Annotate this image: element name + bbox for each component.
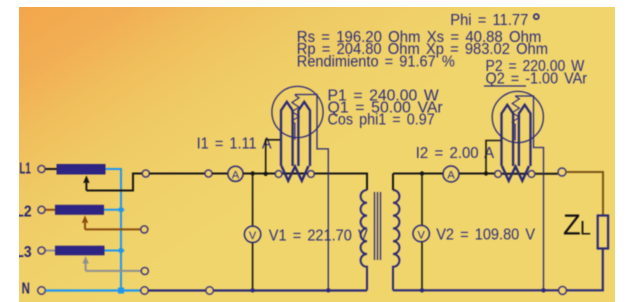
potentiometer L3 terminal	[38, 247, 45, 254]
terminal: secondary output bottom	[559, 286, 567, 294]
potentiometer L2 wire from terminal	[45, 209, 55, 211]
cyan junction L3	[117, 247, 124, 254]
terminal: L2 branch	[141, 226, 148, 233]
wire: L3 wiper to branch terminal	[86, 270, 142, 272]
cyan stub L2	[104, 209, 121, 211]
junction: W2 on bottom rail	[541, 288, 545, 292]
junction: W1 voltage tap	[264, 172, 268, 176]
junction: V2 on bottom rail	[420, 288, 424, 292]
potentiometer L2 terminal	[38, 206, 45, 213]
terminal: N input	[38, 287, 46, 295]
svg-text:V: V	[418, 229, 426, 241]
wire: top rail segment B	[212, 173, 228, 175]
svg-text:Phi = 11.77: Phi = 11.77	[450, 12, 528, 29]
cyan bus vertical	[120, 168, 122, 291]
white margin left	[0, 0, 19, 302]
potentiometer L1 wiper arrow	[85, 183, 87, 191]
cyan junction N rail	[118, 288, 124, 294]
wattmeter W2 voltage coil resistor	[512, 97, 519, 125]
wattmeter W2 case circle	[492, 91, 543, 142]
wattmeter W2 voltage tap wiring	[516, 96, 544, 290]
wattmeter W1 voltage coil resistor	[292, 96, 299, 124]
junction: V1 on bottom rail	[250, 288, 254, 292]
cyan stub L1	[106, 168, 122, 170]
potentiometer L2 wiper arrow	[84, 223, 86, 229]
potentiometer L3 wiper arrow	[85, 264, 87, 271]
svg-text:I2 = 2.00 A: I2 = 2.00 A	[416, 145, 495, 162]
junction: V2 tap	[420, 171, 424, 175]
svg-text:Rendimiento = 91.67 %: Rendimiento = 91.67 %	[297, 54, 455, 71]
terminal: top rail 2	[205, 170, 212, 177]
wattmeter W1	[266, 86, 329, 290]
potentiometer L2 body	[55, 205, 104, 215]
potentiometer L1 wire from terminal	[45, 168, 56, 170]
transformer T1 secondary riser	[392, 174, 394, 191]
svg-text:V2 = 109.80 V: V2 = 109.80 V	[436, 227, 536, 244]
svg-text:A: A	[232, 169, 240, 181]
voltmeter V1	[244, 226, 260, 242]
svg-text:L: L	[580, 218, 591, 240]
wattmeter W1 current coil zigzag	[282, 166, 309, 181]
wire: bottom rail left (navy)	[148, 289, 367, 291]
wire: top rail segment C (ammeter to transformer)	[243, 174, 367, 191]
transformer T1 primary riser	[366, 174, 368, 191]
wire: load to bottom rail	[566, 249, 603, 291]
white margin top	[0, 0, 634, 7]
wire: secondary top rail	[393, 173, 558, 175]
wattmeter W1 case circle	[272, 86, 323, 137]
potentiometer L3 body	[55, 246, 105, 256]
wattmeter W1 moving coils	[281, 102, 293, 166]
cyan stub L3	[105, 250, 122, 252]
wattmeter W2 input tap wiring	[486, 141, 502, 174]
svg-text:Q2 = -1.00 VAr: Q2 = -1.00 VAr	[486, 70, 588, 87]
cyan junction L2	[117, 206, 124, 213]
wire: neutral (blue)	[45, 289, 140, 291]
white margin right	[615, 0, 634, 302]
degree symbol	[534, 14, 539, 19]
wire: bottom rail right	[393, 289, 559, 291]
svg-text:Z: Z	[563, 210, 581, 242]
wattmeter W1 current coil terminals	[275, 171, 282, 178]
svg-text:L1: L1	[19, 160, 31, 177]
svg-text:N: N	[22, 280, 30, 297]
svg-text:A: A	[447, 170, 455, 182]
svg-text:V1 = 221.70 V: V1 = 221.70 V	[269, 227, 369, 244]
wattmeter W2	[486, 91, 544, 290]
voltmeter V2	[413, 225, 429, 241]
potentiometer L1 terminal	[38, 165, 45, 172]
terminal: top rail 1	[142, 170, 149, 177]
junction: V1 tap	[251, 171, 255, 175]
wattmeter W2 moving coils	[502, 105, 514, 166]
svg-text:V: V	[249, 230, 257, 242]
transformer T1 secondary coil	[393, 190, 399, 290]
load ZL body	[598, 216, 608, 249]
wattmeter W1 input tap wiring	[266, 140, 281, 174]
wire: to load (brown)	[566, 172, 603, 216]
wattmeter W2 current coil terminals	[495, 171, 502, 178]
svg-text:I1 = 1.11 A: I1 = 1.11 A	[197, 136, 273, 153]
terminal: bottom rail mid	[206, 287, 214, 295]
wattmeter W1 voltage tap wiring	[296, 95, 329, 291]
transformer T1 core	[375, 192, 381, 260]
wire: top rail segment A	[149, 173, 205, 175]
wire: L2 wiper to branch terminal	[85, 228, 141, 230]
transformer T1 primary coil	[361, 190, 367, 290]
wire: V1 branch	[252, 174, 254, 291]
wire: L1 wiper to top rail	[86, 174, 142, 191]
terminal: L3 branch	[141, 267, 148, 274]
ammeter A1	[228, 166, 243, 181]
terminal: bottom rail left	[141, 287, 149, 295]
ammeter A2	[443, 166, 459, 182]
potentiometer L3 wire from terminal	[45, 250, 55, 252]
junction: W2 voltage tap	[484, 171, 488, 175]
stray wire segment above W2	[484, 85, 526, 87]
junction: W1 on bottom rail	[326, 288, 330, 292]
potentiometer L1 body	[57, 164, 106, 175]
wattmeter W2 current coil zigzag	[502, 166, 529, 181]
wire: V2 branch	[421, 174, 423, 291]
svg-text:Cos phi1 = 0.97: Cos phi1 = 0.97	[328, 111, 435, 128]
terminal: secondary output top	[558, 168, 566, 176]
